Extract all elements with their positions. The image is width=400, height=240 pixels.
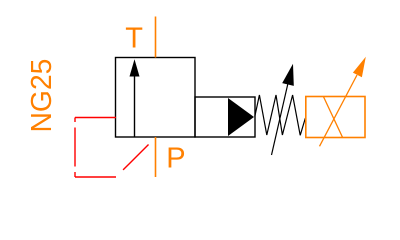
pilot line segment: bottom horizontal xyxy=(75,176,116,178)
proportional actuator box xyxy=(306,97,365,138)
spring xyxy=(255,95,306,135)
spring adjustment arrow shaft xyxy=(272,81,289,155)
pilot line segment: diagonal to P xyxy=(116,138,156,178)
internal flow arrow shaft xyxy=(134,72,136,137)
svg-text:T: T xyxy=(125,23,143,55)
svg-text:P: P xyxy=(166,143,185,175)
solenoid triangle xyxy=(228,98,254,136)
pilot line segment: into valve left side xyxy=(75,117,116,119)
proportional adjustment arrowhead xyxy=(353,57,366,78)
actuator box diagonal xyxy=(323,97,342,138)
P port line xyxy=(155,137,157,177)
valve body square xyxy=(116,58,196,138)
T port line xyxy=(155,17,157,58)
svg-text:NG25: NG25 xyxy=(25,59,57,133)
pilot/solenoid box xyxy=(195,97,255,137)
internal flow arrowhead xyxy=(130,59,140,76)
spring adjustment arrowhead xyxy=(282,64,294,86)
pilot line segment: vertical xyxy=(74,118,76,178)
proportional adjustment arrow shaft xyxy=(320,75,358,146)
